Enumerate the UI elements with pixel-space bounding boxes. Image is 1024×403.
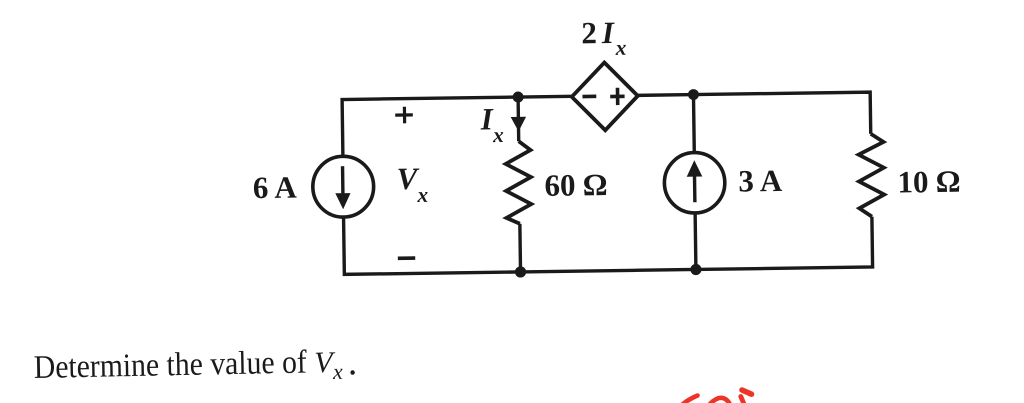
problem statement text (33, 344, 343, 390)
wire 3A source bottom to node D (693, 212, 697, 269)
svg-text:x: x (492, 123, 504, 147)
plus polarity mark of Vx (395, 113, 413, 116)
svg-text:Determine the value of: Determine the value of (33, 345, 307, 386)
svg-text:6 A: 6 A (253, 170, 298, 206)
wire node A to dependent-source left terminal (518, 95, 572, 99)
resistor R2 10-ohm (zigzag) (858, 134, 884, 217)
node C (junction dot bottom of 60-ohm branch) (515, 266, 526, 277)
current source I2 3A arrow (upward) (693, 175, 697, 202)
current arrow Ix (arrowhead on 60-ohm branch) (511, 117, 527, 132)
dependent source plus sign (610, 95, 624, 99)
wire node D to node C (bottom wire) (521, 269, 696, 271)
wire node B to top-right corner and down to 10-ohm resistor (693, 92, 870, 136)
svg-text:x: x (416, 183, 428, 207)
wire 60-ohm resistor bottom to node C (518, 224, 522, 272)
minus polarity mark of Vx (398, 256, 415, 260)
wire 10-ohm resistor bottom to bottom-right corner to node D (695, 217, 872, 270)
period of problem statement (350, 370, 354, 375)
red handwritten mark stroke 4 (741, 397, 744, 403)
wire node B down to 3A source top (692, 95, 696, 154)
wire left side: 6A top lead, top-left corner, top wire to node A (342, 97, 519, 156)
node B (junction dot top of 3A branch) (688, 89, 699, 100)
wire dependent-source right terminal to node B (638, 93, 694, 97)
svg-text:x: x (332, 359, 343, 384)
svg-text:I: I (601, 15, 615, 50)
node D (junction dot bottom of 3A branch) (690, 264, 701, 275)
current source I2 3A (circle) (664, 152, 725, 213)
dependent source minus sign (582, 95, 596, 99)
svg-text:x: x (614, 36, 626, 60)
node A (junction dot top of 60-ohm branch) (513, 91, 524, 102)
red handwritten mark stroke 3 (accent) (742, 390, 752, 394)
svg-text:2: 2 (581, 15, 597, 50)
red handwritten mark stroke 1 (683, 396, 698, 403)
wire node C to bottom-left corner up to 6A bottom lead (344, 215, 521, 275)
svg-text:60 Ω: 60 Ω (544, 167, 607, 203)
svg-text:3 A: 3 A (738, 163, 783, 199)
current source I1 6A arrow (downward) (341, 166, 345, 195)
red handwritten mark stroke 2 (710, 398, 730, 403)
wire node A down to 60-ohm resistor top (Ix branch) (516, 97, 520, 141)
svg-text:10 Ω: 10 Ω (897, 164, 960, 200)
svg-text:I: I (480, 101, 494, 136)
current source I1 6A (circle) (312, 156, 374, 218)
resistor R1 60-ohm (zigzag) (505, 141, 531, 224)
dependent source E1 2Ix (diamond) (571, 62, 638, 131)
